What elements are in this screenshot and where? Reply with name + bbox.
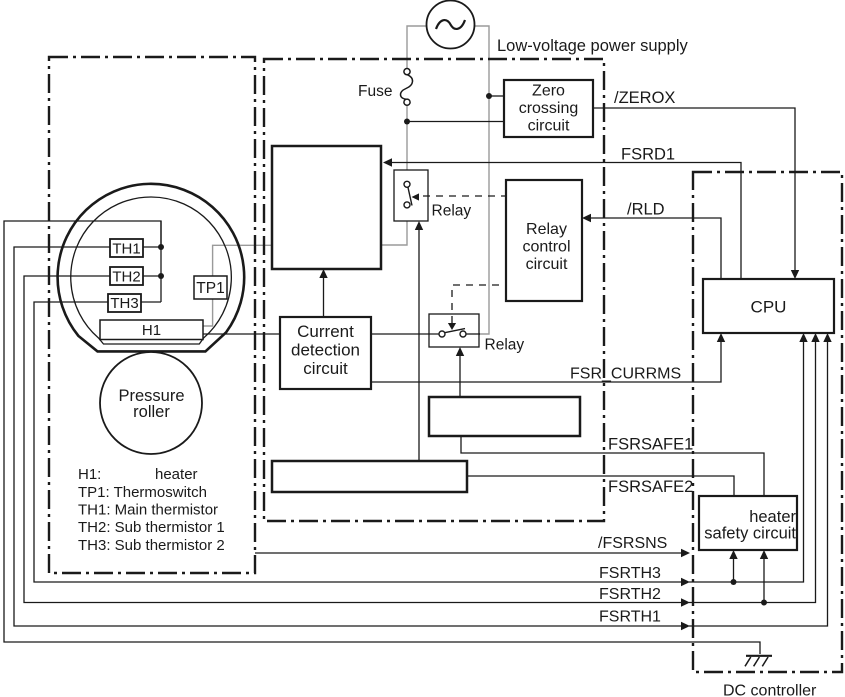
svg-text:FSRD1: FSRD1 (621, 146, 675, 164)
svg-text:FSRTH3: FSRTH3 (599, 565, 661, 582)
svg-text:circuit: circuit (526, 256, 568, 273)
svg-text:Fuse: Fuse (358, 83, 392, 100)
svg-text:CPU: CPU (751, 298, 787, 317)
svg-text:TH2: Sub thermistor 1: TH2: Sub thermistor 1 (78, 519, 225, 536)
svg-text:Relay: Relay (526, 221, 567, 238)
svg-text:TH3: TH3 (110, 295, 138, 312)
svg-text:TH1: Main thermistor: TH1: Main thermistor (78, 502, 218, 519)
svg-text:DC controller: DC controller (723, 683, 817, 697)
svg-text:safety circuit: safety circuit (704, 525, 796, 543)
svg-text:circuit: circuit (528, 118, 570, 135)
svg-text:crossing: crossing (519, 100, 579, 117)
svg-text:FSRSAFE2: FSRSAFE2 (608, 478, 693, 496)
svg-text:Current: Current (297, 322, 354, 341)
svg-text:H1:: H1: (78, 466, 101, 483)
svg-text:circuit: circuit (303, 359, 348, 378)
svg-text:heater: heater (155, 466, 198, 483)
svg-text:FSRTH2: FSRTH2 (599, 586, 661, 603)
svg-text:Low-voltage power supply: Low-voltage power supply (497, 37, 689, 55)
svg-text:control: control (522, 239, 570, 256)
svg-text:H1: H1 (142, 322, 161, 339)
svg-text:/FSRSNS: /FSRSNS (598, 535, 667, 552)
svg-text:Relay: Relay (432, 203, 472, 220)
svg-text:/RLD: /RLD (627, 201, 665, 219)
svg-text:TH1: TH1 (112, 240, 140, 257)
svg-text:TP1: Thermoswitch: TP1: Thermoswitch (78, 484, 207, 501)
svg-text:detection: detection (291, 341, 360, 360)
svg-text:FSR_CURRMS: FSR_CURRMS (570, 366, 681, 383)
svg-text:/ZEROX: /ZEROX (614, 89, 675, 107)
svg-text:Relay: Relay (485, 337, 525, 354)
svg-text:TP1: TP1 (196, 280, 224, 297)
svg-text:FSRTH1: FSRTH1 (599, 609, 661, 626)
svg-text:TH3: Sub thermistor 2: TH3: Sub thermistor 2 (78, 537, 225, 554)
svg-text:FSRSAFE1: FSRSAFE1 (608, 436, 693, 454)
svg-text:roller: roller (133, 403, 170, 421)
svg-text:Zero: Zero (532, 83, 565, 100)
svg-text:TH2: TH2 (112, 268, 140, 285)
svg-text:heater: heater (749, 508, 796, 526)
